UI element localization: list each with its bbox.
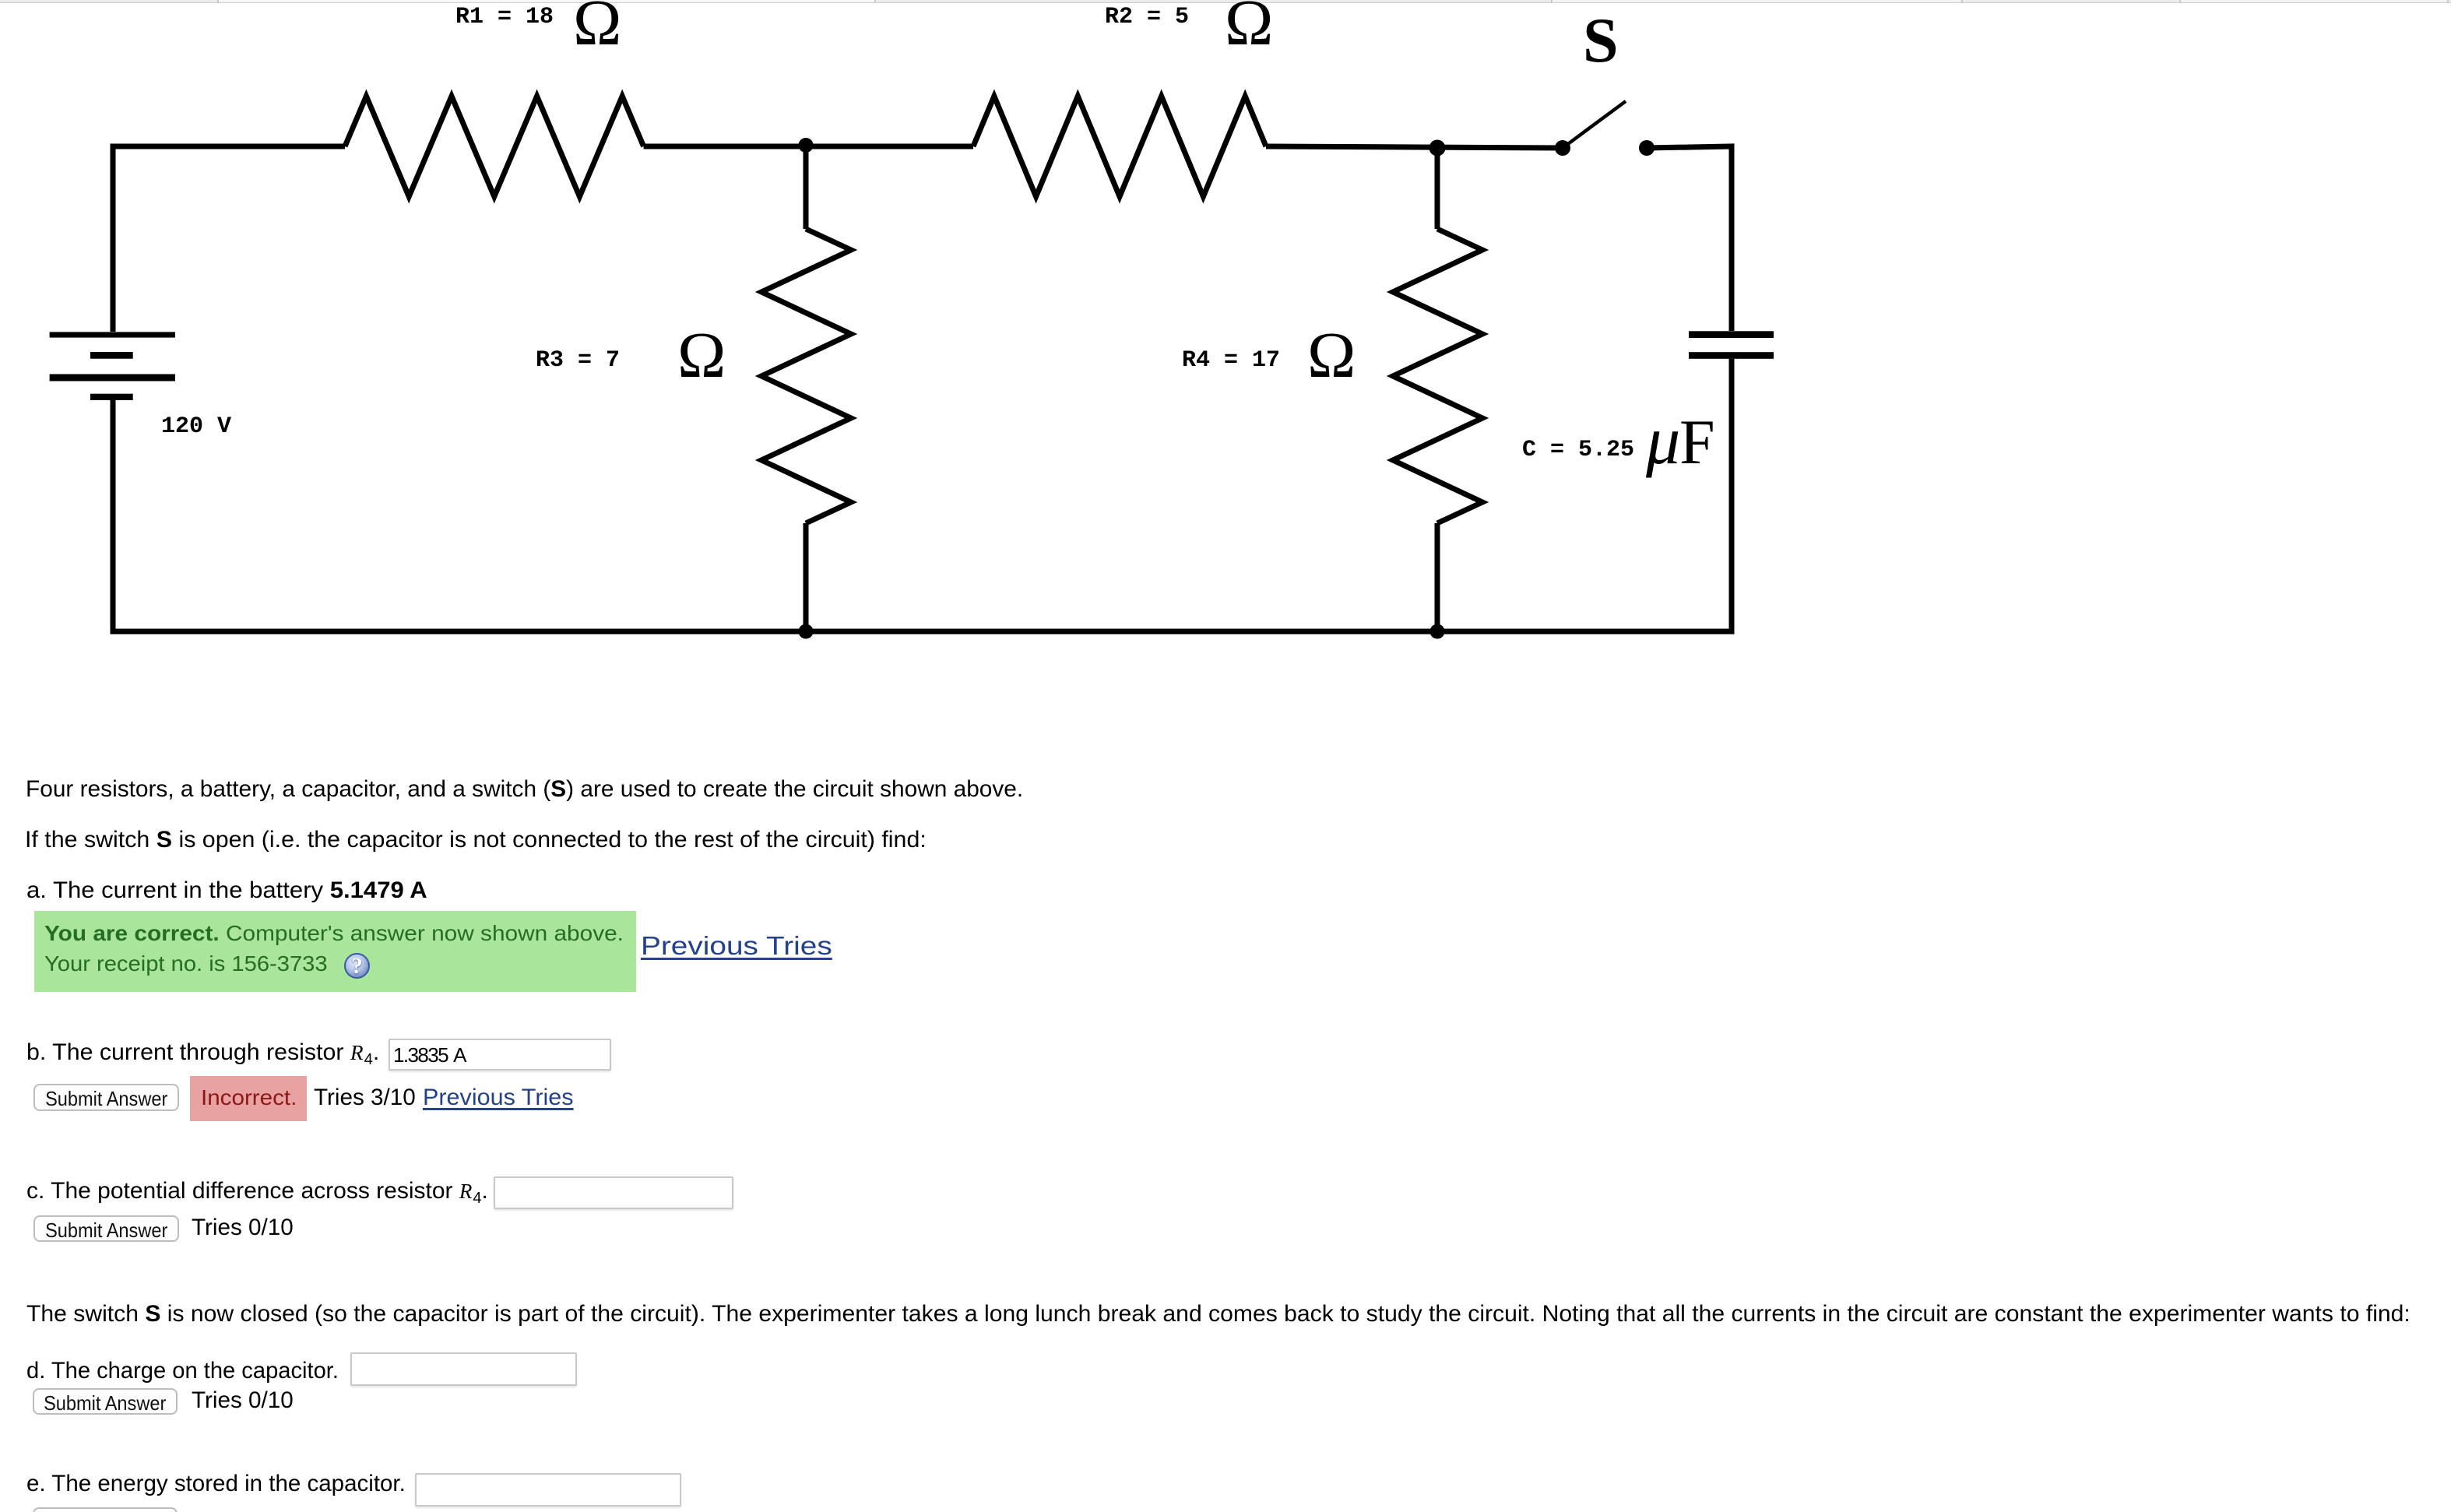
wire: switch to top-right corner down to capacitor (1647, 146, 1732, 331)
wire: battery to bottom-left corner and bottom rail (113, 400, 1735, 631)
capacitor C bottom plate (1689, 352, 1774, 359)
wire: node A down to R3 (804, 145, 809, 229)
item e (26, 1471, 406, 1497)
wire: node B down to R4 (1435, 148, 1440, 229)
label R2 ohm symbol (1225, 0, 1273, 59)
input c (494, 1176, 733, 1209)
label R1 ohm symbol (573, 0, 621, 59)
label capacitor unit microfarad (1646, 403, 1680, 479)
item c (26, 1178, 488, 1208)
switch S right contact dot (1639, 140, 1655, 156)
paragraph 3 (switch closed) (26, 1301, 2411, 1327)
green correct box (34, 911, 636, 992)
node D junction dot (bottom of R4) (1430, 624, 1445, 639)
switch S blade (1563, 101, 1626, 148)
battery short plate 2 (90, 352, 133, 359)
node C junction dot (bottom of R3) (799, 624, 814, 639)
wire: capacitor to bottom-right corner (1729, 359, 1735, 631)
resistor R2 (973, 97, 1266, 197)
wire: R1 to R2 through node A (644, 144, 973, 149)
battery positive plate (top long) (50, 332, 175, 337)
wire: R4 down to bottom rail (1435, 523, 1440, 631)
label R4 ohm symbol (1307, 319, 1356, 392)
input d (350, 1352, 577, 1386)
input b (389, 1039, 611, 1071)
battery long plate 3 (50, 374, 175, 382)
switch S left contact dot (1555, 140, 1570, 156)
label capacitor unit F (1679, 407, 1715, 478)
top toolbar remnant strip (0, 0, 2451, 3)
wire: R3 down to bottom rail (804, 523, 809, 631)
label R3 value (536, 347, 620, 374)
label R2 value (1105, 4, 1189, 30)
tries c (192, 1215, 294, 1241)
node A junction dot (top of R3) (799, 138, 814, 153)
resistor R1 (345, 97, 644, 197)
label R3 ohm symbol (677, 319, 726, 392)
item d (26, 1358, 339, 1384)
paragraph 1 (26, 776, 1023, 803)
wire: R2 to switch through node B (1266, 146, 1563, 148)
help icon (344, 953, 370, 979)
label switch S (1583, 5, 1619, 76)
paragraph 2 (25, 827, 927, 853)
capacitor C top plate (1689, 331, 1774, 338)
label R1 value (455, 4, 554, 30)
previous tries link (row a) (641, 932, 832, 961)
submit button b (33, 1084, 179, 1111)
input e (415, 1473, 681, 1507)
item b (26, 1039, 379, 1069)
incorrect box (190, 1076, 307, 1121)
label battery voltage 120 V (161, 413, 231, 440)
submit button c (33, 1215, 179, 1242)
resistor R3 (761, 229, 851, 523)
item a (26, 877, 427, 904)
label R4 value (1182, 347, 1280, 374)
submit button f partial at bottom edge (33, 1507, 178, 1512)
battery short plate 4 (bottom) (90, 394, 133, 400)
resistor R4 (1393, 229, 1482, 523)
submit button d (33, 1388, 178, 1415)
tries b (314, 1085, 416, 1111)
circuit schematic drawing (0, 0, 1791, 677)
wire: top-left horizontal from battery branch to R1 (113, 146, 345, 332)
previous tries link b (423, 1085, 574, 1111)
label capacitor value (1522, 437, 1634, 463)
tries d (192, 1387, 294, 1414)
node B junction dot (top of R4) (1429, 140, 1446, 156)
